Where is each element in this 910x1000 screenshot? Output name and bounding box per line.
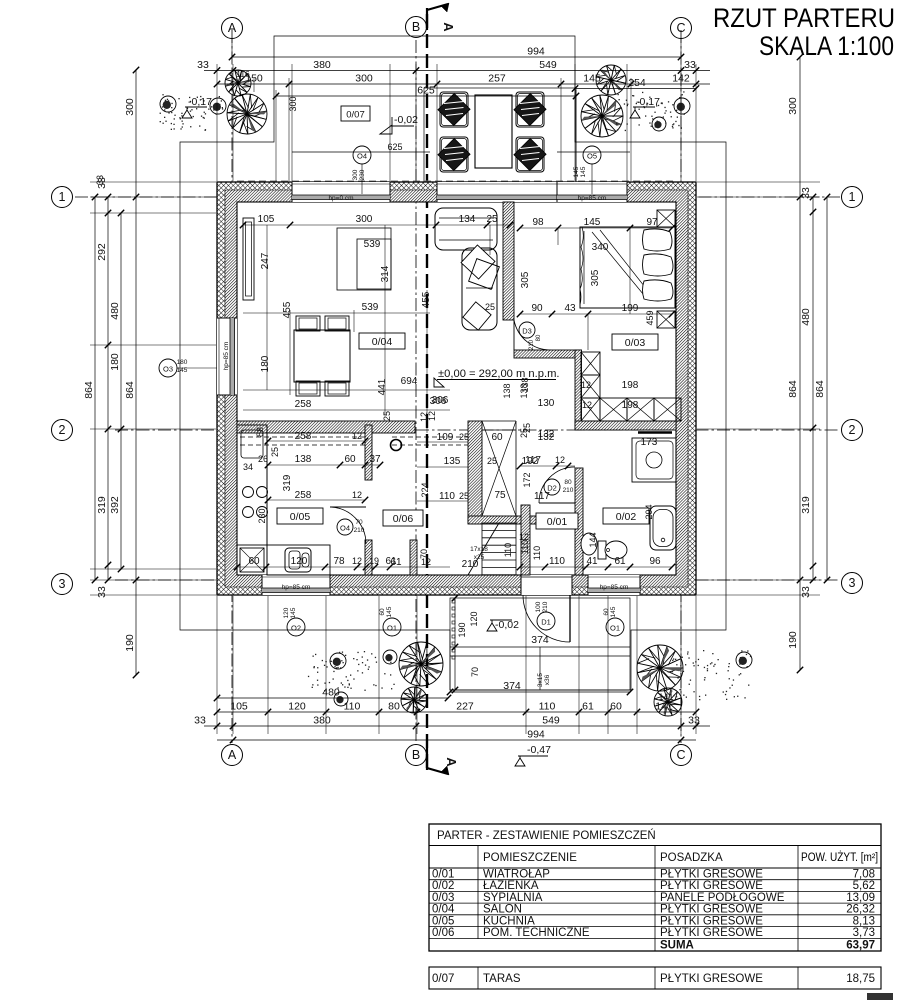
svg-text:0/01: 0/01 xyxy=(547,516,568,528)
terrace chair 2 xyxy=(516,92,544,127)
svg-text:459: 459 xyxy=(645,310,655,325)
bathroom top wall xyxy=(575,421,676,430)
svg-text:70: 70 xyxy=(470,667,480,677)
exterior wall outline xyxy=(217,182,696,595)
window salon terrace door xyxy=(292,182,390,202)
svg-text:POW. UŻYT. [m²]: POW. UŻYT. [m²] xyxy=(801,851,878,864)
svg-text:314: 314 xyxy=(380,265,391,282)
techroom wall stub xyxy=(410,540,417,575)
svg-text:7,08: 7,08 xyxy=(853,869,875,881)
svg-text:60: 60 xyxy=(248,556,260,567)
svg-text:8,13: 8,13 xyxy=(853,915,875,927)
svg-text:120: 120 xyxy=(469,611,479,626)
svg-text:SKALA 1:100: SKALA 1:100 xyxy=(759,31,894,61)
level mark -0,02 terrace xyxy=(380,125,392,134)
window tag line O4 xyxy=(292,151,430,153)
dim bottom row1 xyxy=(217,711,696,713)
svg-text:0/01: 0/01 xyxy=(432,869,454,881)
svg-text:110: 110 xyxy=(520,540,530,554)
dim top 994 xyxy=(232,56,681,58)
svg-text:110: 110 xyxy=(439,491,455,502)
dim left long xyxy=(135,70,137,675)
dim left chain2 xyxy=(107,197,109,580)
dim bottom row2 xyxy=(204,725,710,727)
bedroom dim top xyxy=(520,227,672,229)
svg-text:480: 480 xyxy=(322,687,340,699)
svg-text:199: 199 xyxy=(622,303,639,314)
svg-text:625: 625 xyxy=(387,142,402,152)
svg-text:12: 12 xyxy=(555,455,565,465)
svg-text:12: 12 xyxy=(352,556,362,566)
svg-text:0/03: 0/03 xyxy=(625,337,646,349)
svg-text:PŁYTKI GRESOWE: PŁYTKI GRESOWE xyxy=(660,869,763,881)
hall dims xyxy=(520,465,575,467)
window tag O2 bottom xyxy=(287,618,305,636)
svg-text:D3: D3 xyxy=(522,327,532,336)
svg-text:254: 254 xyxy=(628,77,646,89)
kitchen sink top xyxy=(241,430,263,458)
svg-text:230: 230 xyxy=(359,169,366,180)
section line A-A xyxy=(426,14,428,768)
staircase cross lines xyxy=(482,421,516,516)
stair dashed opening xyxy=(392,436,468,438)
salon sideboard xyxy=(243,218,254,300)
svg-text:172: 172 xyxy=(522,472,532,487)
svg-text:O1: O1 xyxy=(610,624,620,633)
svg-text:300: 300 xyxy=(288,96,298,111)
entry door D1 opening xyxy=(521,575,572,595)
axis bubble 2 xyxy=(52,420,73,441)
svg-text:145: 145 xyxy=(290,607,297,618)
svg-text:33: 33 xyxy=(194,715,206,727)
salon dim row bottom xyxy=(243,389,450,391)
sofa body xyxy=(462,248,497,330)
svg-text:110: 110 xyxy=(503,543,513,557)
svg-text:26,32: 26,32 xyxy=(846,904,875,916)
svg-text:25: 25 xyxy=(486,214,498,225)
svg-text:97: 97 xyxy=(646,217,658,228)
extension lines right xyxy=(697,181,820,183)
axis bubble 3 xyxy=(52,574,73,595)
svg-text:864: 864 xyxy=(814,380,826,398)
svg-text:625: 625 xyxy=(417,85,435,97)
svg-text:80: 80 xyxy=(536,334,542,341)
svg-text:138: 138 xyxy=(295,454,312,465)
svg-text:0/02: 0/02 xyxy=(432,880,454,892)
svg-text:141: 141 xyxy=(658,692,673,702)
svg-text:392: 392 xyxy=(109,496,121,514)
shrub bottom-right a xyxy=(736,652,752,668)
svg-text:B: B xyxy=(412,20,420,34)
shrub top-right b xyxy=(652,117,666,131)
svg-text:0/05: 0/05 xyxy=(432,915,454,927)
svg-text:0/07: 0/07 xyxy=(346,110,365,121)
dim bottom row0 xyxy=(217,697,448,699)
svg-text:25: 25 xyxy=(459,432,469,442)
tree bottom-left large xyxy=(399,642,443,686)
svg-text:O5: O5 xyxy=(587,152,597,161)
svg-text:190: 190 xyxy=(787,631,799,649)
axis bubble C xyxy=(671,18,692,39)
bed xyxy=(580,227,675,308)
svg-text:1: 1 xyxy=(849,190,856,204)
svg-text:132: 132 xyxy=(538,432,555,443)
svg-text:300: 300 xyxy=(352,169,359,180)
svg-text:441: 441 xyxy=(377,378,388,395)
window tag O3 left xyxy=(159,359,177,377)
svg-text:134: 134 xyxy=(459,214,476,225)
door O4 kitchen arc xyxy=(330,507,366,544)
bathtub xyxy=(650,506,676,550)
svg-text:141: 141 xyxy=(655,701,673,713)
svg-text:210: 210 xyxy=(462,559,479,570)
bottom terrace dim line xyxy=(454,598,456,690)
interior wall kitchen/techroom xyxy=(365,425,372,480)
svg-text:180: 180 xyxy=(109,353,121,371)
svg-text:80: 80 xyxy=(388,701,400,713)
door D2 arc xyxy=(539,467,575,503)
svg-text:60: 60 xyxy=(379,608,386,616)
axis bubble 1 xyxy=(52,187,73,208)
dim right 864 xyxy=(826,197,828,580)
svg-text:TARAS: TARAS xyxy=(483,973,521,985)
dim left 864 outer xyxy=(94,197,96,580)
kitchen counter bottom xyxy=(267,545,330,575)
svg-text:138: 138 xyxy=(520,377,530,392)
svg-text:120: 120 xyxy=(291,556,308,567)
svg-text:37: 37 xyxy=(369,454,381,465)
door tag D1 xyxy=(537,612,555,630)
axis bubble B xyxy=(406,17,427,38)
sofa chaise xyxy=(435,208,497,250)
wardrobe bottom row xyxy=(600,398,627,421)
bedroom interior extension lines xyxy=(629,228,631,314)
svg-text:480: 480 xyxy=(800,308,812,326)
salon interior extension lines xyxy=(266,225,268,390)
svg-text:O4: O4 xyxy=(357,152,367,161)
svg-text:POSADZKA: POSADZKA xyxy=(660,852,723,864)
dining chair 4 xyxy=(325,381,349,396)
svg-text:PŁYTKI GRESOWE: PŁYTKI GRESOWE xyxy=(660,880,763,892)
svg-text:D1: D1 xyxy=(541,618,551,627)
svg-text:2: 2 xyxy=(59,423,66,437)
svg-text:319: 319 xyxy=(800,496,812,514)
svg-text:12: 12 xyxy=(421,557,431,567)
svg-text:110: 110 xyxy=(539,701,556,713)
shrub bottom-left a xyxy=(330,653,346,669)
svg-text:x36: x36 xyxy=(544,674,551,685)
svg-text:0/03: 0/03 xyxy=(432,892,454,904)
svg-text:-0,17: -0,17 xyxy=(636,96,660,108)
level mark -0,02 bottom xyxy=(487,620,512,631)
shrub top-left a xyxy=(160,96,176,112)
svg-text:1: 1 xyxy=(59,190,66,204)
svg-text:300: 300 xyxy=(124,98,136,116)
svg-text:694: 694 xyxy=(401,376,418,387)
svg-text:hp=0 cm: hp=0 cm xyxy=(328,195,353,202)
terrace chair 3 xyxy=(440,137,468,172)
hall/bath wall vertical xyxy=(575,468,583,575)
room label 0/04 xyxy=(359,333,405,349)
grid axis B xyxy=(415,40,417,743)
corridor wall horizontal xyxy=(514,350,581,358)
svg-text:105: 105 xyxy=(230,701,248,713)
window tag O1 bottom-left xyxy=(383,618,401,636)
svg-text:210: 210 xyxy=(354,527,365,534)
svg-text:C: C xyxy=(676,748,685,762)
svg-text:-0,17: -0,17 xyxy=(188,96,212,108)
svg-text:SYPIALNIA: SYPIALNIA xyxy=(483,892,543,904)
svg-text:12: 12 xyxy=(419,412,429,422)
svg-text:ŁAZIENKA: ŁAZIENKA xyxy=(483,880,539,892)
svg-text:319: 319 xyxy=(96,496,108,514)
bedroom door D3 arc xyxy=(514,320,551,350)
door tag D2 xyxy=(544,479,560,495)
window bedroom xyxy=(557,182,627,202)
bedroom nightstand top xyxy=(657,210,675,227)
svg-text:227: 227 xyxy=(456,701,474,713)
terrace 0/07 outline xyxy=(424,88,576,182)
salon rug outline xyxy=(337,228,391,290)
svg-text:25: 25 xyxy=(382,411,392,421)
svg-text:100: 100 xyxy=(535,601,542,612)
svg-text:hp=85 cm: hp=85 cm xyxy=(600,584,629,591)
svg-text:180: 180 xyxy=(177,359,188,366)
svg-text:25: 25 xyxy=(459,491,469,501)
svg-text:135: 135 xyxy=(444,456,461,467)
svg-text:60: 60 xyxy=(610,701,622,713)
bedroom dim bottom xyxy=(520,313,672,315)
svg-text:300: 300 xyxy=(356,214,373,225)
svg-text:61: 61 xyxy=(614,556,626,567)
window big slider xyxy=(437,182,575,202)
svg-text:-0,02: -0,02 xyxy=(495,619,519,631)
svg-text:hp=85 cm: hp=85 cm xyxy=(578,195,607,202)
svg-text:247: 247 xyxy=(260,252,271,269)
svg-text:RZUT PARTERU: RZUT PARTERU xyxy=(713,3,895,33)
svg-text:O2: O2 xyxy=(291,624,301,633)
svg-text:KUCHNIA: KUCHNIA xyxy=(483,915,535,927)
kitchen fridge xyxy=(240,548,264,572)
dim top row3 xyxy=(217,83,710,85)
svg-text:0/05: 0/05 xyxy=(290,511,311,523)
dining chair 1 xyxy=(296,316,320,331)
svg-text:110: 110 xyxy=(344,701,361,713)
svg-text:12: 12 xyxy=(581,380,591,390)
svg-text:210: 210 xyxy=(529,339,535,350)
svg-text:145: 145 xyxy=(573,166,580,177)
svg-text:198: 198 xyxy=(622,380,639,391)
salon dim row mid xyxy=(243,312,430,314)
window tag line O5 xyxy=(557,151,630,153)
extension lines left xyxy=(90,181,216,183)
bottom terrace outline xyxy=(450,598,630,690)
terrace chair 4 xyxy=(516,137,544,172)
svg-text:864: 864 xyxy=(83,381,95,399)
dots bottom-left xyxy=(308,651,395,691)
svg-text:380: 380 xyxy=(313,715,331,727)
terrace table xyxy=(475,95,512,168)
svg-text:190: 190 xyxy=(124,634,136,652)
svg-text:994: 994 xyxy=(527,46,545,58)
salon dim row top xyxy=(243,224,510,226)
window salon left xyxy=(217,318,237,395)
room label 0/01 xyxy=(536,513,578,529)
svg-text:138: 138 xyxy=(502,383,512,398)
svg-text:SALON: SALON xyxy=(483,904,522,916)
tree bottom-right small xyxy=(654,688,682,716)
dining chair 2 xyxy=(325,316,349,331)
svg-text:0/06: 0/06 xyxy=(393,513,414,525)
kitchen counter left xyxy=(237,425,267,545)
svg-text:-0,47: -0,47 xyxy=(527,744,551,756)
bottom terrace drain dots xyxy=(452,600,455,603)
svg-text:258: 258 xyxy=(295,490,312,501)
svg-text:292: 292 xyxy=(96,243,108,261)
svg-text:145: 145 xyxy=(386,606,393,617)
svg-text:539: 539 xyxy=(364,239,381,250)
svg-text:294: 294 xyxy=(644,504,654,519)
svg-text:145: 145 xyxy=(584,217,601,228)
svg-text:3,73: 3,73 xyxy=(853,927,875,939)
svg-text:117: 117 xyxy=(534,491,550,502)
svg-text:41: 41 xyxy=(586,556,598,567)
dots top-left xyxy=(160,94,224,131)
svg-text:374: 374 xyxy=(503,680,521,692)
door tag D3 xyxy=(519,322,535,338)
svg-text:258: 258 xyxy=(295,399,312,410)
svg-text:300: 300 xyxy=(355,73,373,85)
dim top 625 xyxy=(276,95,576,97)
window tag O1 bottom-right xyxy=(606,618,624,636)
svg-text:B: B xyxy=(412,748,420,762)
svg-text:306: 306 xyxy=(432,395,449,406)
svg-text:340: 340 xyxy=(592,242,609,253)
section flag bottom xyxy=(427,748,448,774)
svg-text:0/04: 0/04 xyxy=(432,904,455,916)
svg-text:60: 60 xyxy=(344,454,356,465)
shrub top-right a xyxy=(674,98,690,114)
svg-text:144: 144 xyxy=(588,532,598,547)
svg-text:3: 3 xyxy=(849,576,856,590)
svg-text:25: 25 xyxy=(485,302,495,312)
room label 0/05 xyxy=(277,508,323,524)
svg-text:142: 142 xyxy=(672,73,690,85)
shrub bottom-left b xyxy=(334,692,348,706)
axis bubble C xyxy=(671,745,692,766)
svg-text:33: 33 xyxy=(95,175,105,185)
svg-text:PŁYTKI GRESOWE: PŁYTKI GRESOWE xyxy=(660,927,763,939)
shrub bottom-left c xyxy=(383,650,397,664)
svg-text:43: 43 xyxy=(564,303,576,314)
level mark -0,47 bottom xyxy=(515,756,548,766)
interior wall salon/kitchen xyxy=(237,421,415,433)
svg-text:2: 2 xyxy=(849,423,856,437)
level text salon xyxy=(434,378,444,387)
tree top-right large xyxy=(581,95,623,137)
toilet xyxy=(598,541,606,559)
svg-text:WIATROŁAP: WIATROŁAP xyxy=(483,869,550,881)
svg-text:109: 109 xyxy=(437,432,454,443)
svg-text:A: A xyxy=(228,21,237,35)
svg-text:3: 3 xyxy=(59,577,66,591)
svg-text:PŁYTKI GRESOWE: PŁYTKI GRESOWE xyxy=(660,915,763,927)
kitchen sink double xyxy=(285,548,311,572)
svg-text:61: 61 xyxy=(390,557,402,568)
interior wall 0/06 right / stairs xyxy=(468,421,482,523)
terrace chair 1 xyxy=(440,92,468,127)
sofa pillows xyxy=(461,245,495,279)
roof overhang outline xyxy=(180,36,726,690)
grid axis C xyxy=(680,30,682,743)
svg-text:305: 305 xyxy=(520,271,531,288)
svg-text:190: 190 xyxy=(457,622,467,637)
bath shelf xyxy=(638,431,672,433)
svg-text:994: 994 xyxy=(527,729,545,741)
svg-text:258: 258 xyxy=(295,431,312,442)
tree top-right small xyxy=(596,65,626,95)
svg-text:455: 455 xyxy=(282,301,293,318)
svg-text:12: 12 xyxy=(582,400,592,410)
room label 0/06 xyxy=(383,510,423,526)
svg-text:120: 120 xyxy=(283,607,290,618)
corridor wall vertical xyxy=(575,350,582,430)
door tag O4 kitchen xyxy=(337,519,353,535)
svg-text:33: 33 xyxy=(96,586,108,598)
room label 0/07 xyxy=(341,106,370,121)
svg-text:61: 61 xyxy=(582,701,594,713)
axis bubble 2 xyxy=(842,420,863,441)
svg-text:12: 12 xyxy=(352,431,362,441)
svg-text:18,75: 18,75 xyxy=(846,973,875,985)
svg-text:110: 110 xyxy=(532,546,542,560)
entry door D1 leaf and arc xyxy=(569,595,571,642)
bed blanket lines xyxy=(592,232,648,300)
svg-text:5,62: 5,62 xyxy=(853,880,875,892)
dim left chain3 xyxy=(120,213,122,569)
svg-text:O1: O1 xyxy=(387,624,397,633)
shrub top-left b xyxy=(210,98,226,114)
svg-text:75: 75 xyxy=(494,490,506,501)
svg-text:A: A xyxy=(441,22,456,32)
bedroom nightstand bottom xyxy=(657,311,675,328)
shower/washer xyxy=(632,438,676,482)
axis bubble 3 xyxy=(842,573,863,594)
svg-text:3x15: 3x15 xyxy=(537,673,544,687)
dining table xyxy=(294,330,350,382)
svg-text:130: 130 xyxy=(538,398,555,409)
level mark -0,17 left xyxy=(182,107,207,118)
svg-text:0/02: 0/02 xyxy=(616,511,637,523)
stair landing wall xyxy=(468,516,540,524)
svg-text:-0,02: -0,02 xyxy=(394,114,418,126)
room table taras row xyxy=(429,967,881,989)
dim right long xyxy=(799,57,801,670)
svg-text:25: 25 xyxy=(519,428,529,438)
dim right chain2 xyxy=(812,197,814,580)
svg-text:98: 98 xyxy=(532,217,544,228)
svg-text:90: 90 xyxy=(531,303,543,314)
svg-text:O4: O4 xyxy=(340,524,350,533)
washbasin xyxy=(581,533,597,555)
axis bubble A xyxy=(222,745,243,766)
svg-text:POM. TECHNICZNE: POM. TECHNICZNE xyxy=(483,927,590,939)
svg-text:SUMA: SUMA xyxy=(660,940,694,952)
svg-text:455: 455 xyxy=(421,291,432,308)
svg-text:210: 210 xyxy=(542,601,549,612)
page corner mark xyxy=(867,993,893,1000)
window kitchen bottom xyxy=(262,575,330,595)
